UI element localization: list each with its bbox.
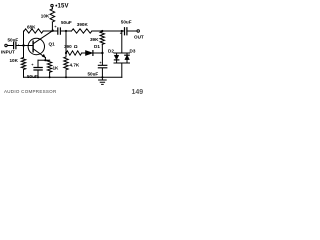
wire +15V to 10K <box>51 7 53 9</box>
wire node H to cap C3 <box>37 60 39 67</box>
diode pair bottom bar <box>114 62 130 64</box>
wire 390ohm to D1 <box>82 52 86 54</box>
resistor R 39K vertical <box>100 32 104 45</box>
wire node H horizontal <box>38 59 50 61</box>
svg-text:Ω: Ω <box>74 44 78 50</box>
wire out cap to OUT terminal <box>127 30 137 32</box>
svg-text:AUDIO COMPRESSOR: AUDIO COMPRESSOR <box>4 89 57 94</box>
wire C1 to node G <box>16 45 23 47</box>
svg-text:10K: 10K <box>10 58 19 63</box>
wire node F down to cap C4 <box>101 53 103 65</box>
svg-text:390K: 390K <box>77 22 89 27</box>
resistor R 4.7K vertical <box>64 53 68 77</box>
ground rail <box>24 76 122 78</box>
wire node D to out cap <box>122 30 124 32</box>
wire 39K to node F <box>101 44 103 53</box>
wire 68K to node A <box>43 30 52 32</box>
transistor Q1 collector <box>33 31 52 44</box>
node C junction <box>101 30 103 32</box>
OUT terminal <box>137 30 139 32</box>
wire top rail y=31 left part (68K left corner down) <box>23 30 26 32</box>
wire node G to base <box>24 45 33 47</box>
capacitor C2 50uF plates <box>58 28 61 34</box>
svg-text:+: + <box>31 62 34 67</box>
svg-text:50uF: 50uF <box>61 20 72 25</box>
wire input to cap C1 <box>7 45 13 47</box>
node B junction <box>65 30 67 32</box>
wire node G down to 10K input resistor <box>23 46 25 58</box>
wire node A to cap <box>53 30 58 32</box>
svg-text:1K: 1K <box>53 66 60 71</box>
resistor R 68K <box>24 29 43 33</box>
svg-text:10K: 10K <box>41 13 50 18</box>
svg-text:D1: D1 <box>94 44 100 49</box>
transistor Q1 circle <box>28 38 44 54</box>
node E junction <box>65 52 67 54</box>
svg-text:39K: 39K <box>90 37 99 42</box>
wire C4 to rail <box>101 68 103 77</box>
capacitor C1 50uF plates <box>14 42 16 48</box>
wire 10K to collector node <box>51 22 53 31</box>
resistor R 10K (top) <box>50 9 55 22</box>
rail junction dots <box>37 76 39 78</box>
svg-text:•15V: •15V <box>55 3 69 9</box>
capacitor C3 50uF plates <box>34 68 42 71</box>
svg-text:50uF: 50uF <box>121 20 132 25</box>
wire cap to node B <box>61 30 66 32</box>
capacitor C4 50uF plates <box>98 65 106 68</box>
wire 390K to node C <box>92 30 102 32</box>
node G junction <box>22 44 24 46</box>
svg-text:+: + <box>54 24 57 29</box>
diode D3 (right, pointing up) <box>126 53 128 55</box>
node F junction <box>101 52 103 54</box>
wire diode pair to rail <box>121 63 123 77</box>
svg-text:149: 149 <box>132 89 144 96</box>
svg-text:390: 390 <box>64 44 72 49</box>
svg-text:D3: D3 <box>130 49 136 54</box>
wire 1K to rail <box>49 72 51 77</box>
resistor R 390K <box>72 29 92 33</box>
resistor R 1K vertical <box>47 60 51 72</box>
svg-text:4.7K: 4.7K <box>70 63 80 68</box>
wire node C to node D <box>102 30 122 32</box>
Q1 emitter arrow <box>42 54 46 58</box>
node H junction <box>44 59 46 61</box>
svg-text:68K: 68K <box>27 25 36 30</box>
capacitor C5 50uF (output) plates <box>125 28 127 35</box>
svg-text:INPUT: INPUT <box>1 50 15 55</box>
resistor R 10K (input) <box>21 58 25 70</box>
wire 10K to rail <box>23 70 25 78</box>
ground symbol <box>101 77 103 80</box>
wire C3 to rail <box>37 70 39 77</box>
resistor R 390ohm <box>66 51 82 55</box>
transistor Q1 base bar <box>32 41 34 52</box>
wire D1 to node F <box>93 52 102 54</box>
input terminal <box>5 44 7 46</box>
svg-text:50uF: 50uF <box>27 74 38 79</box>
node B vertical wire down <box>65 31 67 53</box>
wire node D down to diode pair <box>121 31 123 53</box>
svg-text:50uF: 50uF <box>88 72 99 77</box>
+15V terminal <box>51 4 53 6</box>
wire node B to 390K <box>66 30 72 32</box>
svg-text:OUT: OUT <box>134 35 144 40</box>
diode pair top bar <box>114 52 130 54</box>
svg-text:D2: D2 <box>108 49 114 54</box>
svg-text:+: + <box>99 60 102 65</box>
transistor Q1 emitter <box>33 49 45 58</box>
diode D1 <box>86 51 93 56</box>
wire node G up to 68K <box>23 31 25 46</box>
diode D2 (left, pointing down) <box>116 53 118 55</box>
wire emitter down to node H <box>44 58 46 61</box>
node A (collector junction) <box>52 30 54 32</box>
node D junction <box>121 30 123 32</box>
svg-text:Q1: Q1 <box>49 42 56 47</box>
